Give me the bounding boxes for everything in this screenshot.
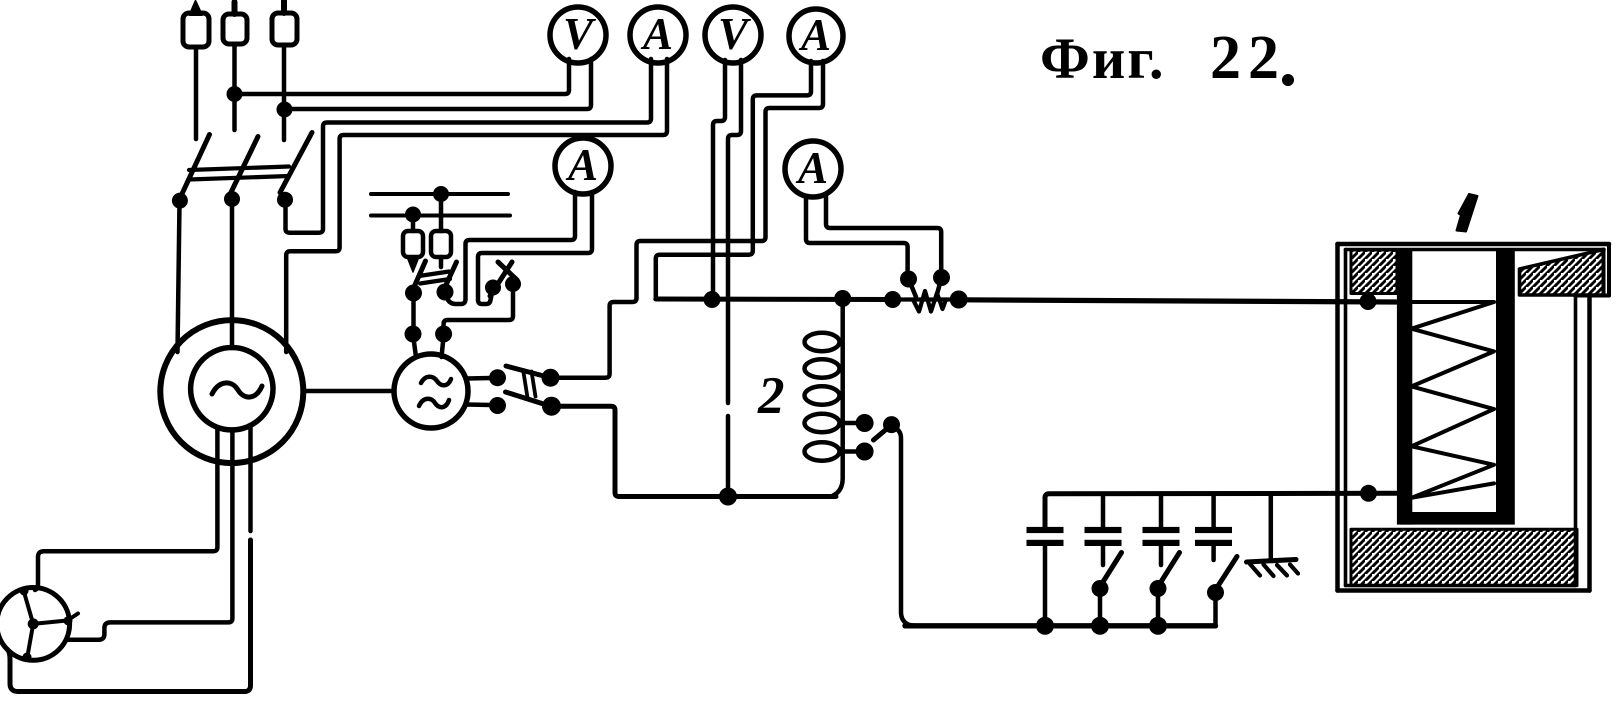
capacitor C4 switch pivot node — [1207, 584, 1224, 601]
node furnace top terminal — [1360, 293, 1377, 310]
main 3-pole knife switch blade 3 — [280, 133, 312, 193]
capacitor C4 stem top — [1211, 494, 1216, 527]
furnace outer shell bottom edge — [1338, 588, 1590, 593]
node main line at shunt left — [884, 291, 901, 308]
furnace top-right hatched wedge — [1520, 250, 1604, 296]
capacitor C1 plates — [1027, 527, 1064, 546]
excitation switch contact node left — [405, 285, 422, 302]
motor M1 tilde symbol — [212, 383, 262, 397]
ammeter A1 — [630, 7, 686, 63]
furnace heating coil zigzag — [1412, 302, 1495, 498]
main line to furnace top terminal — [959, 300, 1396, 302]
starter rheostat spoke end node right — [64, 616, 73, 625]
coil 2 loop 1 — [805, 333, 840, 351]
tank circuit top wire — [656, 297, 893, 303]
motor rotor lead 1 to starter — [35, 427, 217, 590]
fuse F4 (excitation) — [403, 231, 423, 257]
connector shunt right — [937, 280, 942, 297]
fuse F1 (phase 1 incoming) — [183, 1, 209, 139]
wire S2 left contact to ammeter A2 right lead — [478, 192, 592, 304]
starter rheostat spoke up — [24, 592, 33, 624]
node main line at shunt right — [950, 291, 968, 309]
HF generator left terminal node — [405, 326, 422, 343]
wire phase2 to voltmeter V1 left lead — [239, 59, 569, 94]
capacitor C2 switch pivot node — [1092, 580, 1109, 597]
wire excitation switch left to HF generator terminal — [411, 293, 416, 332]
svg-text:V: V — [563, 9, 597, 59]
starter rheostat hub node — [28, 618, 39, 629]
main switch contact node phase2 — [224, 191, 240, 207]
main switch contact node phase3 — [277, 192, 293, 208]
wire voltmeter V2 right lead down to tank bottom wire (with drawing gap) — [728, 60, 741, 403]
HF generator tilde upper — [421, 377, 451, 386]
wire switch phase3 contact up to ammeter A1 left lead — [286, 59, 652, 233]
main switch insulating link bar — [189, 167, 289, 180]
capacitor C2 switch stem to bus — [1098, 590, 1103, 626]
capacitor C2 lower stub — [1101, 545, 1106, 565]
furnace outer shell left wall — [1335, 244, 1340, 591]
DC excitation bus line upper — [371, 192, 508, 196]
node C1 on bottom bus — [1036, 617, 1054, 635]
stub terminal into HF generator left — [413, 336, 416, 357]
excitation switch blade right — [446, 262, 457, 286]
field switch S2 blade with cross — [490, 262, 512, 296]
wire ammeter A1 right lead down to motor phase3 terminal — [286, 59, 667, 352]
svg-text:A: A — [640, 9, 673, 59]
arrow tip below fuse F4 — [408, 258, 419, 272]
node coil top junction — [834, 290, 851, 307]
tap selector pivot node — [883, 416, 900, 433]
HF generator G circle — [394, 354, 468, 428]
coil tap stub lower — [842, 449, 858, 454]
ammeter A4 — [785, 141, 841, 197]
capacitor C3 stem top — [1159, 494, 1164, 527]
ground symbol — [1247, 560, 1299, 577]
connector shunt left — [910, 281, 917, 297]
node junction on phase2 wire — [227, 86, 243, 102]
crucible bottom slab — [1400, 512, 1515, 525]
capacitor C2 stem top — [1101, 494, 1106, 527]
svg-text:V: V — [718, 9, 752, 59]
capacitor C2 switch blade — [1101, 553, 1122, 586]
motor M1 outer circle — [160, 320, 303, 463]
fuse F2 (phase 2 incoming) — [223, 2, 247, 130]
furnace top-left hatched block — [1351, 250, 1397, 294]
capacitor C2 plates — [1085, 527, 1122, 546]
ammeter A2 — [555, 138, 611, 194]
wire HF generator right terminal up to field switch S2 — [444, 286, 513, 332]
field switch S2 contact node right — [505, 276, 521, 292]
field switch S2 contact node left — [485, 280, 501, 296]
coil 2 loop 5 — [805, 442, 840, 460]
furnace top flange right edge — [1604, 244, 1610, 296]
wire switch to motor phase1 — [178, 203, 180, 352]
tank bottom wire from S3 lower contact to coil bottom — [553, 406, 836, 496]
HF output switch S3 link bar — [524, 372, 536, 398]
wire switch to motor phase2 — [230, 201, 235, 348]
main 3-pole knife switch blade 2 — [229, 137, 259, 198]
coil tap stub upper — [842, 421, 858, 426]
HF output switch S3 contact node upper right — [542, 369, 560, 387]
wire ammeter A4 left lead to shunt left — [806, 196, 908, 275]
capacitor top bus to furnace bottom terminal — [1045, 493, 1396, 527]
HF generator tilde lower — [419, 399, 449, 407]
starter rheostat spoke end node up — [20, 587, 29, 596]
HF generator right terminal node — [435, 326, 452, 343]
voltmeter V1 — [550, 7, 606, 63]
shaft coupling motor to HF generator — [303, 389, 394, 394]
node C2 on bottom bus — [1091, 617, 1109, 635]
capacitor bottom bus — [905, 623, 1216, 628]
HF generator output stub upper — [466, 376, 491, 381]
capacitor C1 bottom stem — [1043, 544, 1048, 625]
shunt right upper node — [933, 269, 950, 286]
shunt left upper node — [900, 271, 917, 288]
motor rotor lead 3 to starter (with drawing gap) — [248, 425, 253, 531]
capacitor C3 plates — [1143, 527, 1180, 546]
wire excitation switch right contact to ammeter A2 left lead — [446, 192, 575, 304]
coil tap node upper — [856, 414, 874, 432]
wire lower bus down to fuse F4 — [411, 215, 416, 231]
starter rheostat spoke right — [33, 621, 67, 624]
wire ammeter A4 right lead to shunt right — [826, 196, 941, 274]
label 1 (furnace) — [1457, 194, 1478, 232]
capacitor C3 switch blade — [1159, 553, 1180, 586]
svg-text:A: A — [565, 140, 598, 190]
title Фиг. 22. — [1040, 24, 1294, 92]
HF output switch S3 blade lower — [506, 392, 543, 404]
tap selector blade — [874, 427, 890, 440]
wire upper bus down to fuse F5 — [439, 194, 444, 231]
coil tap node lower — [856, 443, 874, 461]
fuse F5 (excitation) — [431, 231, 451, 257]
fuse F3 (phase 3 incoming) — [272, 1, 297, 140]
starter rheostat arm tick — [68, 614, 78, 621]
HF output switch S3 contact node lower right — [542, 397, 561, 416]
capacitor C4 switch blade — [1216, 557, 1237, 590]
excitation switch link bar — [419, 272, 450, 284]
HF output switch S3 contact node upper left — [489, 369, 506, 386]
motor M1 inner circle — [191, 348, 273, 430]
HF generator output stub lower — [466, 402, 491, 407]
coil 2 loop 3 — [805, 386, 840, 404]
node V2 tap on tank top wire — [704, 291, 721, 308]
capacitor C3 switch pivot node — [1150, 580, 1167, 597]
furnace outer shell top edge — [1338, 242, 1610, 247]
stub terminal into HF generator right — [442, 336, 444, 357]
capacitor C3 lower stub — [1159, 545, 1164, 565]
node furnace bottom terminal — [1360, 485, 1377, 502]
node junction on phase3 wire — [277, 102, 293, 118]
shunt resistor zigzag — [893, 297, 959, 301]
voltmeter V2 — [705, 7, 761, 63]
furnace flange underside — [1575, 294, 1609, 298]
HF output switch S3 blade upper — [506, 366, 542, 376]
ground stem from top bus — [1269, 494, 1274, 560]
capacitor C4 plates — [1195, 527, 1232, 546]
capacitor C3 switch stem to bus — [1156, 590, 1161, 626]
node on lower DC bus — [405, 207, 421, 223]
node V2 tap on tank bottom wire — [719, 488, 737, 506]
wire S3 upper contact up through jogs to ammeter A3 right lead — [553, 61, 823, 378]
svg-text:22: 22 — [1210, 24, 1286, 92]
coil 2 right conductor — [833, 299, 843, 496]
wire voltmeter V2 left lead down to tank top wire — [713, 60, 725, 296]
furnace bottom hatched slab — [1351, 529, 1577, 585]
coil 2 loop 2 — [805, 359, 840, 377]
motor rotor lead 2 to starter — [66, 430, 232, 640]
main 3-pole knife switch blade 1 — [178, 135, 210, 203]
svg-text:A: A — [795, 143, 828, 193]
coil 2 loop 4 — [805, 414, 840, 432]
svg-text:A: A — [798, 10, 831, 60]
capacitor C4 switch stem to bus — [1213, 594, 1218, 626]
node on upper DC bus — [433, 186, 449, 202]
DC excitation bus line lower — [371, 214, 510, 218]
stub below fuse F5 — [439, 257, 444, 267]
HF output switch S3 contact node lower left — [489, 397, 506, 414]
starter rheostat circle — [0, 588, 70, 661]
crucible right wall — [1496, 249, 1515, 512]
excitation switch contact node right — [437, 284, 454, 301]
crucible left wall — [1397, 249, 1412, 525]
main switch contact node phase1 — [172, 193, 188, 209]
capacitor C4 lower stub — [1211, 545, 1216, 560]
starter rheostat spoke down — [28, 624, 34, 656]
wire tap selector down to capacitor bottom bus — [893, 427, 918, 626]
wire phase3 to voltmeter V1 right lead — [289, 59, 591, 109]
excitation switch blade left — [414, 261, 426, 287]
node C3 on bottom bus — [1149, 617, 1167, 635]
furnace outer shell right wall — [1587, 296, 1592, 591]
svg-text:Фиг.: Фиг. — [1040, 26, 1166, 91]
ammeter A3 — [789, 9, 843, 63]
starter rheostat spoke end node down — [23, 653, 32, 662]
svg-text:2: 2 — [757, 367, 785, 425]
wire ammeter A3 left lead down to tank top wire — [656, 61, 811, 297]
